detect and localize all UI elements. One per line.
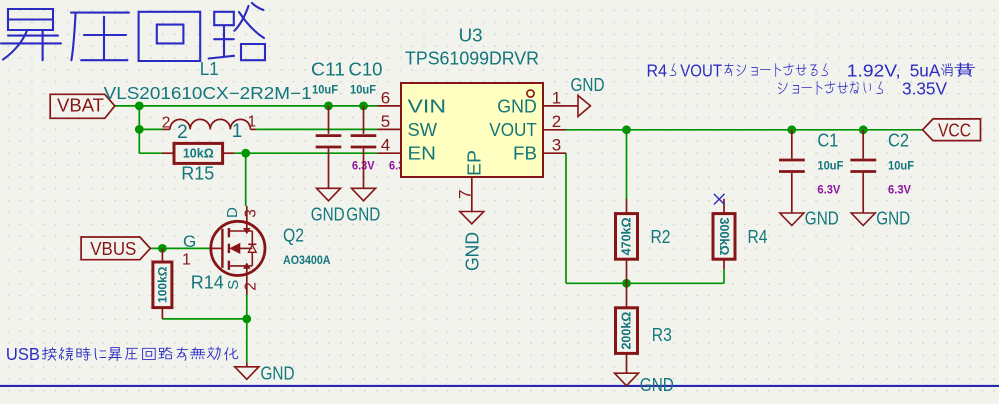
svg-text:3: 3 — [242, 209, 259, 218]
resistor R2 — [616, 199, 638, 283]
label R3 — [652, 324, 672, 345]
svg-text:R4: R4 — [748, 226, 768, 247]
svg-text:GND: GND — [805, 208, 839, 229]
capacitor C11 — [316, 106, 342, 188]
pin 1 GND — [497, 89, 566, 117]
junction L1 branch — [135, 125, 144, 134]
value 6.3V C11 — [352, 160, 375, 172]
text note line2 — [778, 78, 947, 98]
resistor R14 — [153, 248, 172, 319]
svg-text:S: S — [225, 280, 242, 290]
svg-text:L1: L1 — [200, 58, 219, 79]
svg-text:C2: C2 — [888, 130, 909, 151]
label C2 — [888, 130, 909, 151]
wire VBAT branch down — [138, 106, 140, 153]
wire VOUT to VCC — [566, 129, 923, 131]
label C1 — [817, 130, 838, 151]
svg-text:AO3400A: AO3400A — [283, 255, 331, 267]
svg-text:VLS201610CX−2R2M−1: VLS201610CX−2R2M−1 — [104, 83, 312, 103]
wire FB horizontal to R4 — [566, 282, 724, 284]
wire EN junction down to Q2 drain — [245, 153, 247, 206]
resistor R3 — [616, 283, 638, 373]
junction C11 top — [324, 102, 333, 111]
value 6.3V C1 — [817, 185, 840, 197]
global label VCC — [923, 119, 981, 141]
svg-text:EP: EP — [464, 150, 485, 176]
resistor R4 — [713, 199, 735, 269]
wire VBAT to VIN — [115, 105, 378, 107]
svg-text:R14: R14 — [191, 272, 224, 293]
svg-text:1.92V,: 1.92V, — [847, 60, 901, 80]
label C10 — [349, 59, 383, 80]
svg-text:1: 1 — [232, 121, 243, 142]
wire VOUT down to R2 — [626, 130, 628, 199]
label R2 — [651, 226, 671, 247]
value VLS201610CX-2R2M-1 — [104, 83, 312, 103]
wire R4 bottom — [723, 269, 725, 284]
resistor R15 — [162, 143, 234, 163]
svg-text:470kΩ: 470kΩ — [620, 217, 634, 255]
svg-text:10uF: 10uF — [350, 85, 376, 97]
value 6.3V C2 — [888, 185, 911, 197]
junction VBAT-VIN — [135, 102, 144, 111]
junction EN/drain — [241, 149, 250, 158]
svg-text:VBUS: VBUS — [90, 238, 136, 259]
value AO3400A — [283, 255, 331, 267]
svg-text:TPS61099DRVR: TPS61099DRVR — [405, 49, 539, 69]
junction VOUT/R2 — [622, 125, 631, 134]
value 10uF C1 — [817, 161, 843, 173]
svg-text:6.3V: 6.3V — [888, 185, 911, 197]
pin 6 VIN — [377, 89, 446, 117]
svg-text:R15: R15 — [181, 163, 214, 184]
pin 4 EN — [377, 136, 436, 164]
wire VBUS to gate — [150, 247, 210, 249]
svg-text:2: 2 — [242, 282, 259, 291]
junction VOUT/C1 — [787, 125, 796, 134]
power symbol GND R3 — [615, 373, 674, 395]
wire R15 left — [139, 152, 162, 154]
text note USB disable — [6, 344, 238, 364]
junction source/R14 — [242, 315, 251, 324]
no-connect X on R4 — [714, 194, 725, 205]
svg-text:2: 2 — [552, 112, 561, 131]
svg-text:10uF: 10uF — [817, 161, 843, 173]
value 6.3V C10 — [389, 160, 412, 172]
svg-text:D: D — [224, 207, 241, 218]
junction VBUS/R14 — [158, 244, 167, 253]
svg-text:VOUT: VOUT — [489, 119, 537, 140]
svg-text:7: 7 — [455, 190, 474, 199]
svg-text:VOUT: VOUT — [680, 60, 722, 80]
svg-text:GND: GND — [346, 203, 380, 224]
svg-text:R2: R2 — [651, 226, 671, 247]
svg-text:200kΩ: 200kΩ — [620, 312, 634, 350]
power symbol GND C11 — [311, 188, 345, 224]
wire FB down — [565, 153, 567, 283]
power symbol GND C1 — [780, 208, 839, 229]
junction C10 top — [359, 102, 368, 111]
svg-text:Q2: Q2 — [283, 225, 304, 246]
svg-text:VCC: VCC — [938, 119, 971, 140]
op-amp U3 TPS61099DRVR body — [401, 83, 543, 177]
power symbol GND Q2 — [235, 362, 295, 383]
label R14 — [191, 272, 224, 293]
pin 7 EP — [455, 150, 484, 212]
svg-text:6: 6 — [381, 89, 390, 108]
svg-text:10uF: 10uF — [312, 85, 338, 97]
wire R14 bottom to source — [162, 318, 246, 320]
value 10uF C10 — [350, 85, 376, 97]
wire L1 to SW — [256, 128, 377, 130]
power symbol GND C10 — [346, 188, 380, 224]
value 10uF C2 — [888, 161, 914, 173]
svg-text:2: 2 — [177, 122, 188, 143]
junction FB/R2/R3 — [622, 279, 631, 288]
label L1 — [200, 58, 219, 79]
svg-text:GND: GND — [640, 374, 674, 395]
global label VBUS — [81, 237, 150, 260]
svg-text:10uF: 10uF — [888, 161, 914, 173]
svg-text:R3: R3 — [652, 324, 672, 345]
global label VBAT — [50, 94, 115, 118]
wire to L1 pin2 — [139, 128, 163, 130]
svg-text:10kΩ: 10kΩ — [183, 146, 214, 160]
transistor Q2 MOSFET — [182, 206, 265, 295]
power symbol GND EP — [460, 212, 484, 272]
svg-text:GND: GND — [876, 208, 910, 229]
label C11 — [311, 59, 345, 80]
svg-text:G: G — [183, 232, 196, 251]
wire R15 to EN — [234, 152, 377, 154]
label U3 — [459, 25, 483, 46]
svg-text:300kΩ: 300kΩ — [717, 217, 731, 255]
svg-text:GND: GND — [462, 232, 483, 271]
svg-text:5uA: 5uA — [910, 60, 941, 80]
svg-text:3: 3 — [552, 136, 561, 155]
power symbol GND C2 — [851, 208, 910, 229]
capacitor C1 — [779, 130, 805, 213]
svg-text:R4: R4 — [647, 60, 668, 80]
value TPS61099DRVR — [405, 49, 539, 69]
svg-text:1: 1 — [552, 89, 561, 108]
svg-text:1: 1 — [182, 252, 191, 269]
svg-text:6.3V: 6.3V — [817, 185, 840, 197]
wire source down to GND — [246, 295, 248, 363]
svg-text:3.35V: 3.35V — [902, 78, 947, 98]
value 10uF C11 — [312, 85, 338, 97]
pin 3 FB — [513, 136, 566, 164]
label Q2 — [283, 225, 304, 246]
capacitor C2 — [850, 130, 876, 213]
svg-text:SW: SW — [408, 119, 438, 140]
inductor L1 — [162, 114, 257, 143]
svg-text:C10: C10 — [349, 59, 383, 80]
pin 2 VOUT — [489, 112, 565, 140]
svg-text:1: 1 — [248, 114, 257, 131]
svg-text:GND: GND — [261, 362, 295, 383]
svg-text:GND: GND — [311, 203, 345, 224]
svg-text:VIN: VIN — [408, 96, 447, 117]
svg-text:GND: GND — [571, 74, 605, 95]
text title 昇圧回路 — [1, 3, 265, 61]
svg-text:EN: EN — [408, 143, 437, 164]
label R4 — [748, 226, 768, 247]
junction VOUT/C2 — [859, 125, 868, 134]
svg-text:5: 5 — [381, 112, 390, 131]
svg-text:VBAT: VBAT — [57, 95, 104, 116]
text note R4/VOUT short line1 — [647, 60, 975, 80]
label R15 — [181, 163, 214, 184]
svg-text:U3: U3 — [459, 25, 483, 46]
pin 5 SW — [377, 112, 437, 140]
capacitor C10 — [351, 106, 377, 188]
svg-text:C11: C11 — [311, 59, 345, 80]
svg-text:USB: USB — [6, 344, 40, 364]
svg-text:4: 4 — [381, 136, 390, 155]
power symbol GND pin1 (right-pointing) — [567, 74, 605, 117]
svg-text:C1: C1 — [817, 130, 838, 151]
svg-text:GND: GND — [497, 96, 537, 117]
svg-text:FB: FB — [513, 143, 537, 164]
svg-text:100kΩ: 100kΩ — [155, 266, 169, 303]
svg-text:2: 2 — [162, 114, 171, 131]
